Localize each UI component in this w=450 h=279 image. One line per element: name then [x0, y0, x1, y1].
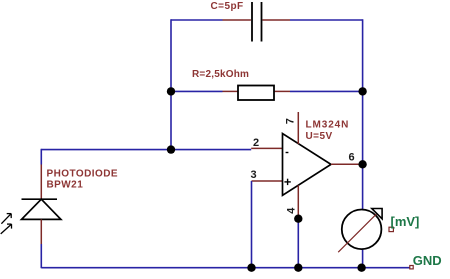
wire photodiode to ground rail: [40, 244, 42, 268]
photodiode D1 cathode bar: [22, 198, 58, 200]
junction node at R left: [167, 87, 175, 95]
capacitor C1 lead left: [223, 19, 251, 21]
wire top net blue right segment: [290, 19, 363, 21]
junction node rail pin3: [247, 264, 255, 272]
svg-text:LM324N: LM324N: [306, 119, 350, 130]
wire pin4 to ground rail: [297, 219, 299, 268]
wire resistor row blue left: [171, 90, 223, 92]
op-amp U1 pin 3 lead: [252, 180, 283, 182]
capacitor C1 lead right: [263, 19, 291, 21]
svg-text:GND: GND: [413, 253, 442, 268]
junction node rail pin4: [294, 264, 302, 272]
svg-text:7: 7: [285, 118, 297, 124]
capacitor C1 plates: [252, 2, 262, 42]
svg-text:3: 3: [251, 169, 257, 181]
photodiode light arrow 2: [1, 224, 12, 234]
junction node at output: [358, 160, 366, 168]
svg-text:U=5V: U=5V: [306, 131, 333, 142]
op-amp U1 pin 2 lead: [251, 147, 282, 149]
wire inverting input net horizontal: [41, 149, 251, 151]
svg-text:4: 4: [286, 207, 298, 214]
resistor R1 lead left: [223, 90, 239, 92]
voltmeter M1 body: [342, 210, 382, 250]
svg-text:6: 6: [349, 152, 355, 164]
svg-text:C=5pF: C=5pF: [211, 1, 244, 12]
svg-text:PHOTODIODE: PHOTODIODE: [47, 169, 119, 180]
voltmeter terminal square: [389, 227, 393, 231]
op-amp U1 pin 6 output lead: [331, 163, 363, 165]
junction node at inverting input: [167, 145, 175, 153]
photodiode D1 triangle: [22, 199, 61, 219]
op-amp U1 body: [283, 134, 332, 196]
wire top net blue left segment: [171, 19, 223, 21]
junction node at R right: [358, 87, 366, 95]
wire ground rail: [41, 267, 410, 269]
ground terminal square: [410, 266, 413, 269]
wire resistor row blue right: [290, 90, 363, 92]
wire left vertical net: [170, 19, 172, 149]
wire right vertical net lower: [362, 249, 364, 268]
svg-text:[mV]: [mV]: [391, 214, 420, 229]
junction node at pin4: [294, 215, 302, 223]
photodiode D1 anode lead: [40, 219, 42, 244]
svg-text:R=2,5kOhm: R=2,5kOhm: [192, 69, 249, 80]
photodiode D1 branch: wire upper blue: [40, 149, 42, 165]
voltmeter needle: [338, 211, 379, 252]
photodiode D1 cathode lead: [40, 165, 42, 200]
resistor R1 body: [238, 86, 274, 101]
op-amp U1 pin 7 lead: [297, 112, 299, 144]
op-amp minus input mark: [286, 152, 289, 153]
svg-text:2: 2: [253, 137, 259, 149]
wire non-inverting net vertical: [251, 181, 253, 268]
op-amp plus input mark: [284, 179, 290, 185]
wire right vertical net upper: [362, 19, 364, 209]
resistor R1 lead right: [274, 90, 290, 92]
photodiode light arrow 1: [1, 214, 11, 224]
voltmeter needle arrowhead: [372, 209, 382, 219]
op-amp U1 pin 4 lead: [297, 185, 299, 219]
junction node rail voltmeter: [357, 264, 365, 272]
svg-text:BPW21: BPW21: [47, 180, 84, 191]
